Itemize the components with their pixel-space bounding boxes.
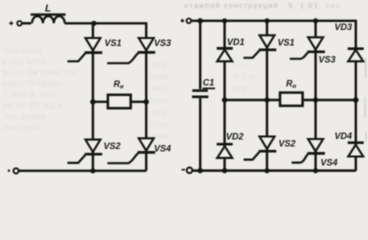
svg-text:VD4: VD4: [335, 131, 353, 141]
svg-text:VD2: VD2: [226, 132, 244, 142]
svg-text:VS4: VS4: [321, 158, 338, 168]
svg-text:VS4: VS4: [154, 144, 171, 154]
svg-text:VS3: VS3: [319, 55, 336, 65]
svg-text:VS2: VS2: [279, 139, 296, 149]
svg-text:VS3: VS3: [154, 38, 171, 48]
svg-text:C1: C1: [203, 78, 215, 88]
svg-text:Rн: Rн: [286, 79, 297, 91]
svg-text:VD1: VD1: [227, 37, 245, 47]
svg-text:Rн: Rн: [114, 79, 125, 91]
svg-text:VS1: VS1: [278, 38, 295, 48]
svg-text:VD3: VD3: [335, 22, 353, 32]
svg-text:VS2: VS2: [104, 141, 121, 151]
svg-text:L: L: [45, 4, 51, 15]
svg-text:VS1: VS1: [105, 38, 122, 48]
